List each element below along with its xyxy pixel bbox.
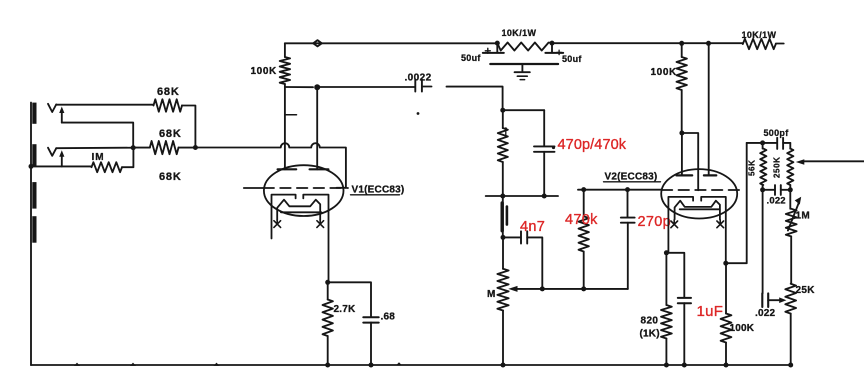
resistor 100K V2 plate load <box>677 43 687 133</box>
svg-text:250K: 250K <box>773 156 782 178</box>
node rail 25K <box>788 363 793 368</box>
volume wiper arrow <box>508 286 542 292</box>
value label .0022 <box>405 73 432 84</box>
node rail 2.7K <box>325 363 330 368</box>
V1 plate a <box>278 168 297 170</box>
V1 cathode left <box>272 195 296 239</box>
wire direct couple to grid <box>682 133 698 190</box>
node rail 100K <box>724 363 729 368</box>
resistor 100K V1 plate load <box>280 43 290 87</box>
potentiometer 1M bass <box>786 190 797 284</box>
resistor 2.7K <box>323 282 333 365</box>
wire thick bar segment <box>502 196 507 237</box>
ink mark i <box>505 127 507 136</box>
ground symbol <box>515 64 530 80</box>
V2 heater <box>675 201 720 220</box>
wire V2 plate lead a <box>681 133 683 175</box>
wire wiper bus <box>542 288 628 290</box>
node V1 plate junction <box>314 84 320 90</box>
node jack bus junction <box>29 164 34 169</box>
node rail junction b <box>550 41 555 46</box>
V1 plate b <box>310 168 329 170</box>
value label .022 bass <box>755 308 776 319</box>
input jack J3 contact <box>32 182 36 209</box>
value label 820 <box>640 316 660 340</box>
triode V2 envelope <box>661 169 737 218</box>
wire V1 plate lead a <box>284 87 286 169</box>
potentiometer 25K mid <box>785 284 796 365</box>
wire input-jack bus vertical <box>30 103 32 366</box>
1M bass wiper arrow <box>788 197 801 231</box>
jack J2 shorting switch arrow <box>59 150 64 166</box>
node mid top junction <box>500 108 505 113</box>
node rail 1uF <box>682 363 687 368</box>
V1 grid dashed <box>244 187 348 189</box>
value label 470p/470k red <box>552 137 627 153</box>
node peaker left bottom <box>500 194 505 199</box>
capacitor 470p <box>534 146 555 196</box>
polarity + left <box>485 48 490 53</box>
node V1 cathode junction <box>325 280 330 285</box>
svg-text:V1(ECC83): V1(ECC83) <box>352 185 405 196</box>
jack J1 shorting switch arrow <box>59 107 64 123</box>
treble wiper arrow <box>796 159 864 165</box>
resistor 56K slope <box>760 143 766 190</box>
resistor 100K V2 cathode <box>721 263 732 365</box>
svg-text:56K: 56K <box>748 160 757 176</box>
node rail .68 <box>369 363 374 368</box>
node rail V2a <box>679 41 684 46</box>
node wiper-4n7 junction <box>540 286 545 291</box>
wire jack2 tip to node <box>56 147 133 150</box>
svg-text:M: M <box>487 289 495 300</box>
capacitor 50uf right top plate <box>545 52 563 54</box>
wire V2 grid bus <box>578 189 662 191</box>
node peaker right bottom <box>542 194 547 199</box>
V1 heater pin x right <box>317 220 324 228</box>
node B+ tap diamond <box>313 40 321 46</box>
wire V2 plate lead b <box>708 43 710 175</box>
V2 heater pin x right <box>717 220 724 228</box>
resistor 1M input <box>92 162 123 172</box>
svg-text:68K: 68K <box>157 86 180 98</box>
value label 1M bass <box>796 211 811 222</box>
value label 68K lower <box>159 171 182 183</box>
svg-text:.022: .022 <box>755 308 776 319</box>
V2 heater pin x left <box>671 220 678 228</box>
node 470k bottom <box>581 286 586 291</box>
triode V1 envelope <box>264 165 344 216</box>
capacitor .68 <box>363 317 378 365</box>
capacitor 50uf left top plate <box>483 52 504 54</box>
resistor 10K/1W second <box>743 39 776 49</box>
svg-text:IM: IM <box>92 152 105 163</box>
jack J1 tip contact V <box>48 104 56 112</box>
node rail volume <box>501 363 506 368</box>
svg-text:100K: 100K <box>251 66 277 77</box>
wire cathode to 1uF <box>666 253 684 298</box>
resistor 470k peaker <box>498 110 508 196</box>
capacitor 1uF <box>678 298 691 365</box>
value label .68 <box>381 312 396 323</box>
jack J2 tip contact V <box>48 148 56 156</box>
node V2a cathode junction <box>664 250 669 255</box>
value label 68K middle <box>159 128 182 140</box>
value label .022 treble <box>767 196 786 207</box>
rail tick b <box>130 363 136 366</box>
value label 270p red <box>638 214 671 230</box>
polarity + right <box>557 50 561 54</box>
svg-text:10K/1W: 10K/1W <box>502 28 537 38</box>
svg-text:4n7: 4n7 <box>520 219 545 235</box>
tick mark on plate lead <box>285 114 297 116</box>
resistor 68K middle <box>133 141 195 154</box>
V2 plate a <box>676 174 692 176</box>
svg-text:1uF: 1uF <box>697 303 724 320</box>
svg-text:25K: 25K <box>796 285 816 296</box>
svg-text:10K/1W: 10K/1W <box>742 30 777 40</box>
value label 4n7 red <box>520 219 545 235</box>
wire plate to .0022 <box>317 86 415 88</box>
label V2(ECC83) <box>604 172 661 183</box>
svg-text:1M: 1M <box>796 211 811 222</box>
svg-text:50uf: 50uf <box>562 54 582 64</box>
wire jack1 switch row <box>62 123 133 146</box>
node V1 grid junction <box>193 145 198 150</box>
value label 10K/1W first <box>502 28 537 38</box>
svg-text:470p/470k: 470p/470k <box>558 137 627 153</box>
V1 cathode right <box>303 195 328 283</box>
wire CF output <box>726 143 747 263</box>
wire V1 plates tie <box>285 86 313 88</box>
wire B+ rail <box>285 42 784 44</box>
node 270p top <box>625 187 630 192</box>
svg-text:50uf: 50uf <box>461 53 481 63</box>
value label 470k red <box>565 212 598 228</box>
resistor 470k mixer <box>579 190 589 289</box>
capacitor .0022 <box>415 80 422 92</box>
wire cathode to .68 <box>328 282 371 317</box>
capacitor 50uf left lead <box>496 43 498 53</box>
svg-text:68K: 68K <box>159 128 182 140</box>
svg-text:100K: 100K <box>651 67 677 78</box>
rail tick d <box>396 362 402 365</box>
svg-text:V2(ECC83): V2(ECC83) <box>605 172 658 183</box>
node 470k top <box>581 187 586 192</box>
wire ground bus bottom rail <box>31 364 791 366</box>
input jack J4 contact <box>32 216 36 243</box>
node tone mid left <box>760 187 765 192</box>
value label 100K V2 cathode <box>730 323 755 334</box>
svg-text:.0022: .0022 <box>405 73 432 84</box>
wire V1 plate lead b <box>316 87 318 169</box>
V2 plate b <box>704 174 716 176</box>
node tone top left <box>760 140 765 145</box>
value label 68K top <box>157 86 180 98</box>
input jack J1 contact <box>32 103 36 124</box>
capacitor .022 treble <box>763 185 791 195</box>
svg-text:100K: 100K <box>730 323 755 334</box>
input jack J2 contact <box>32 144 36 167</box>
svg-text:(1K): (1K) <box>640 329 660 340</box>
value label 100K V2 <box>651 67 677 78</box>
svg-text:.022: .022 <box>767 196 786 207</box>
wire jack line to 1M row <box>31 165 92 167</box>
capacitor 500pf <box>777 138 790 149</box>
wire 68K top to grid junction <box>182 106 195 146</box>
value label 25K <box>796 285 816 296</box>
value label 1uF red <box>697 303 724 320</box>
value label 50uf left <box>461 53 481 63</box>
resistor 68K top <box>154 99 183 111</box>
node jack2 junction <box>131 145 136 150</box>
V2 cathode left <box>668 197 693 253</box>
V1 heater <box>277 200 321 221</box>
svg-text:500pf: 500pf <box>764 128 790 138</box>
capacitor 270p <box>621 190 635 289</box>
wire tone stack top <box>747 142 777 144</box>
svg-text:820: 820 <box>641 316 659 327</box>
value label 1M input <box>92 152 105 163</box>
value label 2.7K <box>334 304 357 315</box>
svg-text:270p: 270p <box>638 214 671 230</box>
label V1(ECC83) <box>351 185 405 196</box>
node rail 820 <box>664 363 669 368</box>
.022 bass wiper arrow <box>779 297 786 303</box>
node 4n7 tap <box>501 235 506 240</box>
wire .0022 to mid node <box>422 87 503 111</box>
rail tick c <box>214 363 220 366</box>
svg-text:470k: 470k <box>565 212 598 228</box>
wire jack1 tip to R 68K top row <box>56 104 153 106</box>
V1 heater pin x left <box>274 220 281 228</box>
wire tone left branch <box>762 190 764 293</box>
value label 500pf <box>764 128 790 138</box>
stray dot <box>417 112 420 115</box>
label M volume <box>487 289 495 300</box>
resistor 10K/1W first <box>497 43 552 51</box>
node V2b cathode junction <box>723 261 728 266</box>
wire V1 grid feed with crossover hops <box>195 143 346 188</box>
svg-text:2.7K: 2.7K <box>334 304 357 315</box>
node tone mid right <box>788 187 793 192</box>
value label 56K vertical <box>748 160 757 176</box>
value label 100K V1 <box>251 66 277 77</box>
node rail junction a <box>495 41 500 46</box>
value label 10K/1W second <box>742 30 777 40</box>
capacitor 4n7 bright <box>503 231 542 289</box>
V2 grid dashed <box>662 189 744 191</box>
svg-text:68K: 68K <box>159 171 182 183</box>
resistor 820 (1K) <box>661 253 672 365</box>
wire to 470p <box>503 110 544 146</box>
node V2 plate-grid junction <box>679 131 684 136</box>
value label 50uf right <box>562 54 582 64</box>
wire V1 grid right lead <box>337 187 346 189</box>
wire peaker bottom bus <box>486 195 558 197</box>
potentiometer 250K treble <box>787 143 793 190</box>
svg-text:.68: .68 <box>381 312 396 323</box>
capacitor .022 bass <box>762 293 780 307</box>
V2 cathode right <box>701 197 726 263</box>
capacitor 50uf right lead <box>551 43 553 53</box>
value label 250K vertical <box>773 156 782 178</box>
potentiometer 1M volume <box>497 237 508 365</box>
wire 1M to node <box>122 148 133 168</box>
rail tick a <box>74 363 80 366</box>
node rail V2b <box>706 41 711 46</box>
wire 50uf common bottom plate <box>490 63 558 65</box>
